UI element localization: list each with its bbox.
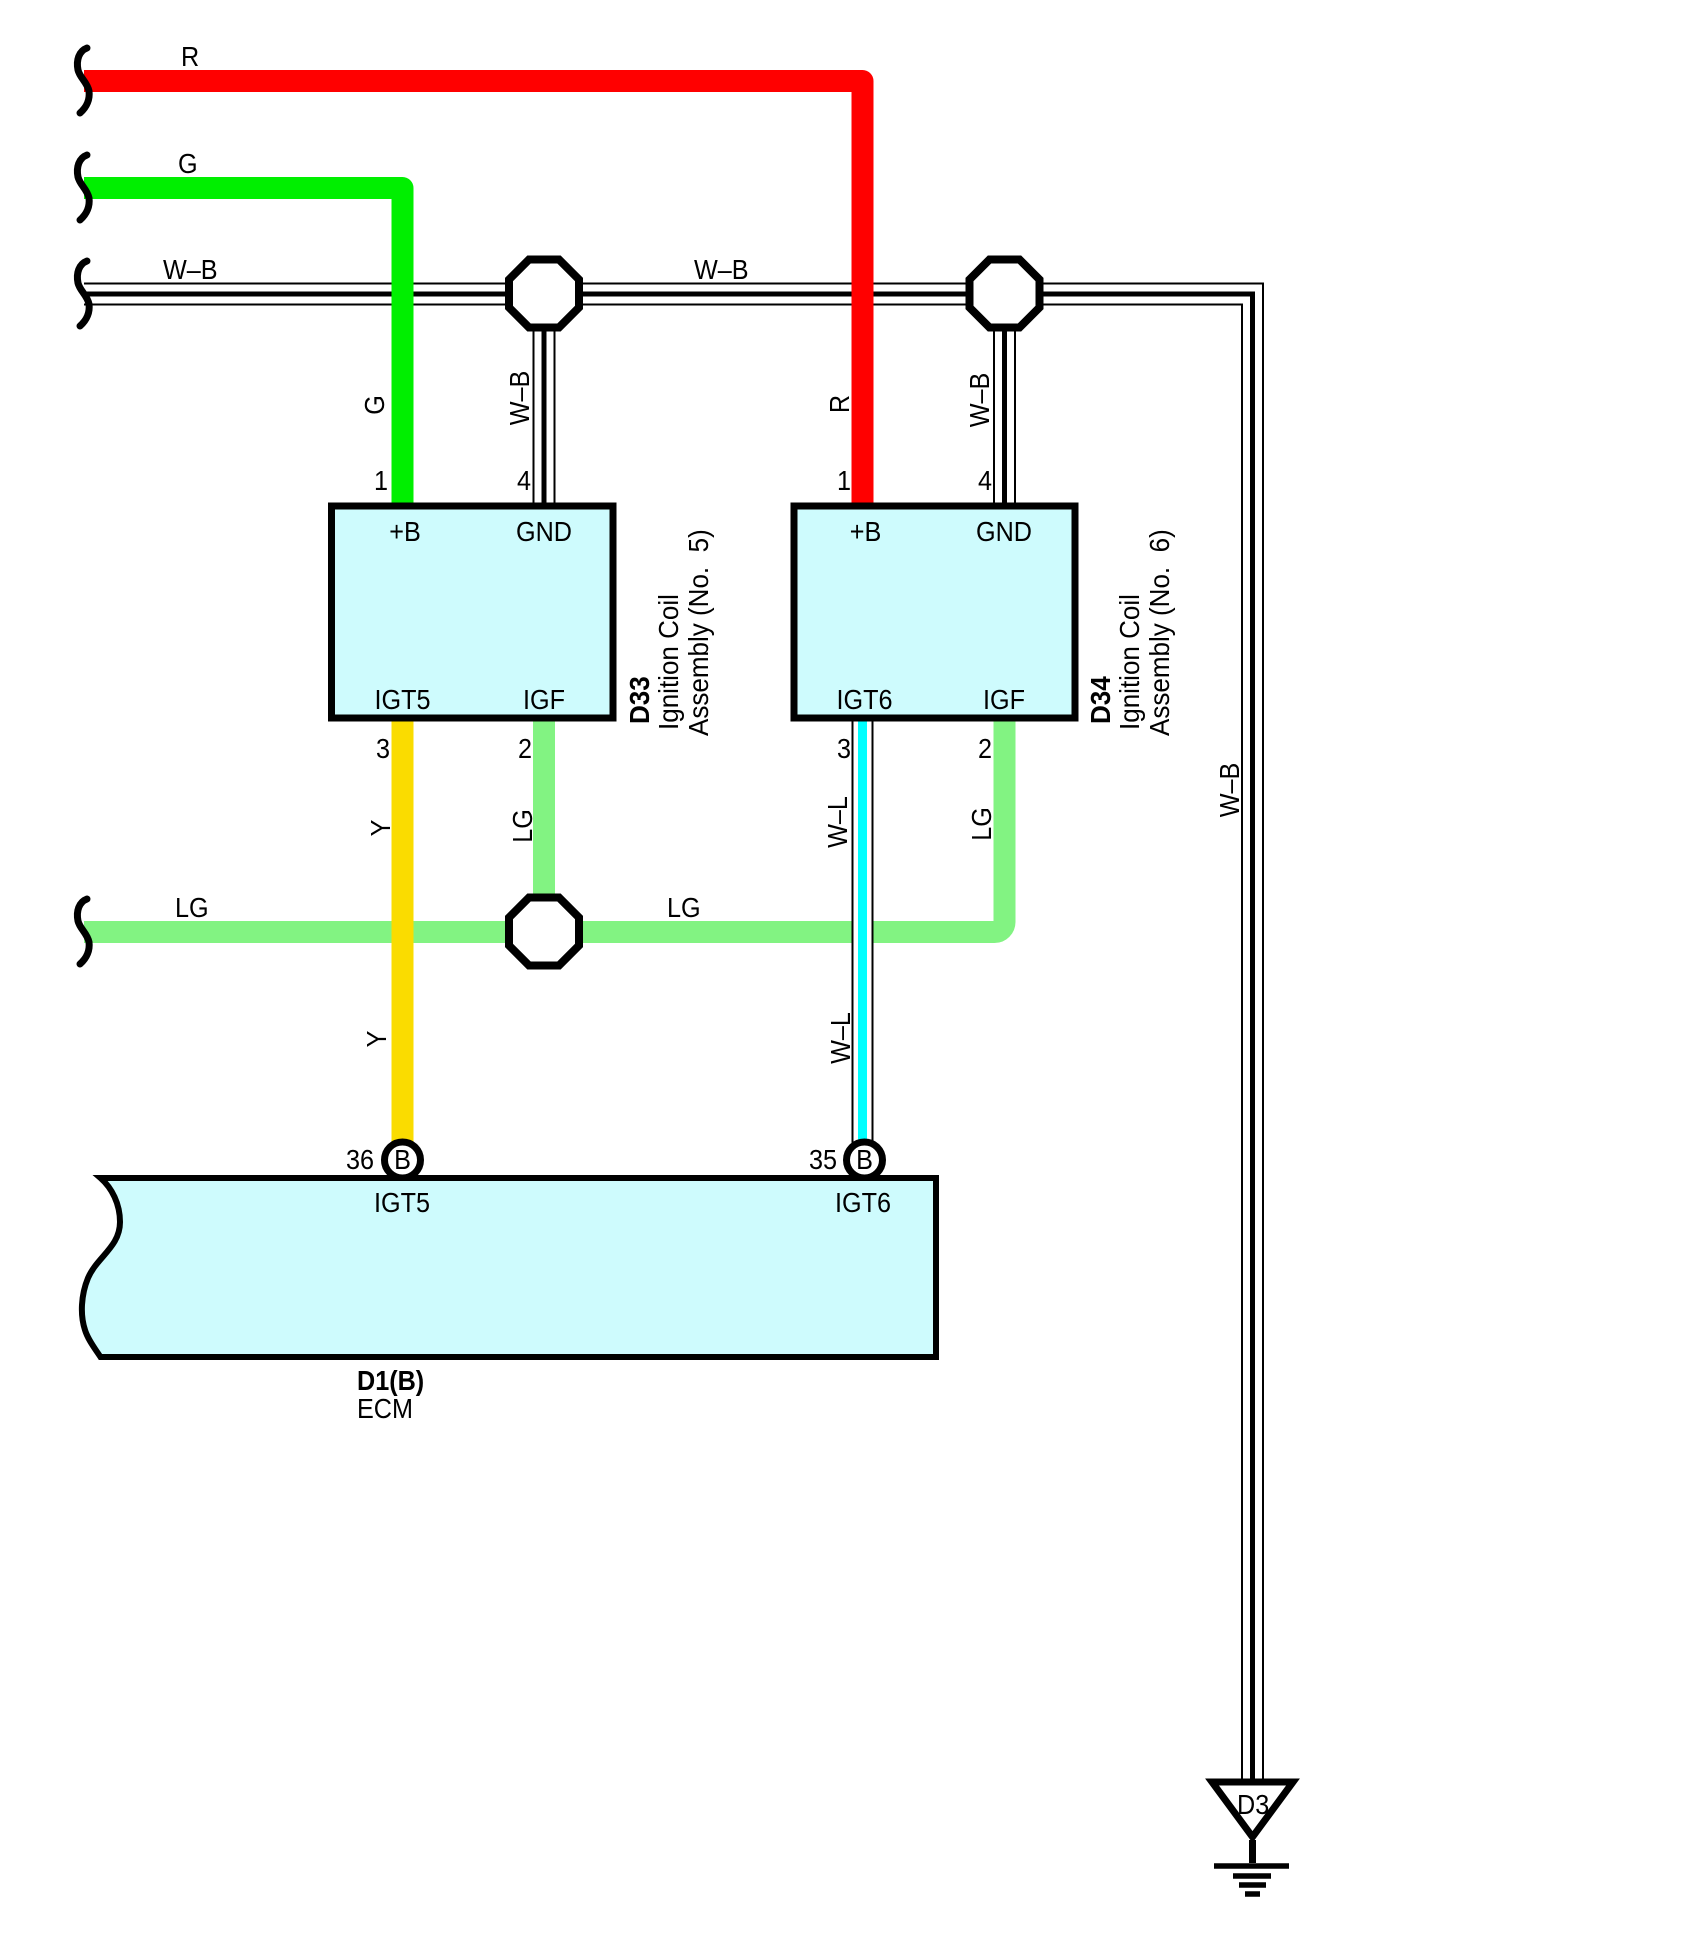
svg-text:ECM: ECM <box>357 1393 413 1425</box>
wire W-B stub junction J2 to D34 GND pin 4 <box>994 331 1015 506</box>
svg-text:B: B <box>394 1144 411 1176</box>
svg-text:W–L: W–L <box>822 796 854 848</box>
svg-text:Assembly (No. 6): Assembly (No. 6) <box>1144 529 1175 736</box>
svg-text:IGF: IGF <box>983 684 1025 716</box>
svg-text:2: 2 <box>978 733 992 765</box>
svg-text:W–L: W–L <box>825 1012 857 1064</box>
svg-text:W–B: W–B <box>964 373 996 428</box>
svg-text:1: 1 <box>374 465 388 497</box>
svg-text:GND: GND <box>516 516 572 548</box>
wire W-B main run: left break to ground D3, through junctions <box>84 284 1263 1780</box>
wire R from left break to D34 +B pin 1 <box>84 81 863 506</box>
break symbol at wire LG <box>77 899 89 964</box>
svg-text:IGF: IGF <box>523 684 565 716</box>
svg-text:D33: D33 <box>624 676 655 724</box>
ground bars <box>1214 1863 1289 1869</box>
svg-text:R: R <box>181 41 199 73</box>
svg-text:GND: GND <box>976 516 1032 548</box>
svg-text:36: 36 <box>346 1144 374 1176</box>
svg-text:IGT5: IGT5 <box>375 684 431 716</box>
ECM terminal 36 circle B <box>385 1142 421 1178</box>
svg-text:W–B: W–B <box>163 254 218 286</box>
svg-text:IGT6: IGT6 <box>835 1187 891 1219</box>
svg-text:35: 35 <box>809 1144 837 1176</box>
break symbol at wire W-B <box>77 261 89 326</box>
ground stem <box>1249 1840 1256 1863</box>
wire LG stub from D33 IGF pin 2 down to junction <box>533 721 555 900</box>
ECM D1(B) box with torn left edge <box>82 1178 936 1357</box>
svg-text:G: G <box>178 148 198 180</box>
svg-text:+B: +B <box>850 516 882 548</box>
svg-text:LG: LG <box>175 892 209 924</box>
svg-text:+B: +B <box>389 516 421 548</box>
svg-text:G: G <box>359 395 391 415</box>
ground D3 triangle <box>1212 1782 1293 1837</box>
svg-text:R: R <box>824 395 856 413</box>
svg-text:2: 2 <box>518 733 532 765</box>
svg-text:Y: Y <box>365 819 397 836</box>
svg-text:IGT6: IGT6 <box>837 684 893 716</box>
svg-text:W–B: W–B <box>1214 763 1246 818</box>
svg-text:Assembly (No. 5): Assembly (No. 5) <box>683 529 714 736</box>
svg-text:W–B: W–B <box>694 254 749 286</box>
svg-text:IGT5: IGT5 <box>374 1187 430 1219</box>
svg-text:Ignition Coil: Ignition Coil <box>653 594 684 730</box>
wire LG horizontal (net LG) with corner up to D34 IGF pin 2 <box>84 721 1005 932</box>
svg-text:4: 4 <box>978 465 992 497</box>
junction J2 (W-B octagon) <box>970 260 1040 328</box>
svg-text:LG: LG <box>966 807 998 841</box>
ignition coil D33 box <box>332 506 614 718</box>
wire Y from D33 IGT5 pin 3 down to ECM terminal 36 <box>392 721 414 1159</box>
svg-text:D34: D34 <box>1085 676 1116 724</box>
break symbol at wire R <box>77 48 89 113</box>
svg-text:1: 1 <box>837 465 851 497</box>
svg-text:LG: LG <box>667 892 701 924</box>
svg-text:D3: D3 <box>1237 1789 1269 1821</box>
svg-text:Ignition Coil: Ignition Coil <box>1114 594 1145 730</box>
junction J3 (LG octagon) <box>509 898 579 966</box>
svg-text:B: B <box>856 1144 873 1176</box>
svg-text:3: 3 <box>837 733 851 765</box>
ECM terminal 35 circle B <box>847 1142 883 1178</box>
break symbol at wire G <box>77 155 89 220</box>
junction J1 (W-B octagon) <box>509 260 579 328</box>
svg-text:3: 3 <box>376 733 390 765</box>
svg-text:LG: LG <box>507 809 539 843</box>
wire W-B stub junction J1 to D33 GND pin 4 <box>534 331 555 506</box>
wire W-L from D34 IGT6 pin 3 down to ECM terminal 35 <box>852 721 874 1159</box>
svg-text:D1(B): D1(B) <box>357 1365 424 1397</box>
ignition coil D34 box <box>794 506 1075 718</box>
svg-text:4: 4 <box>517 465 531 497</box>
svg-text:Y: Y <box>361 1030 393 1047</box>
svg-text:W–B: W–B <box>504 371 536 426</box>
wire G from left break to D33 +B pin 1 <box>84 188 403 506</box>
